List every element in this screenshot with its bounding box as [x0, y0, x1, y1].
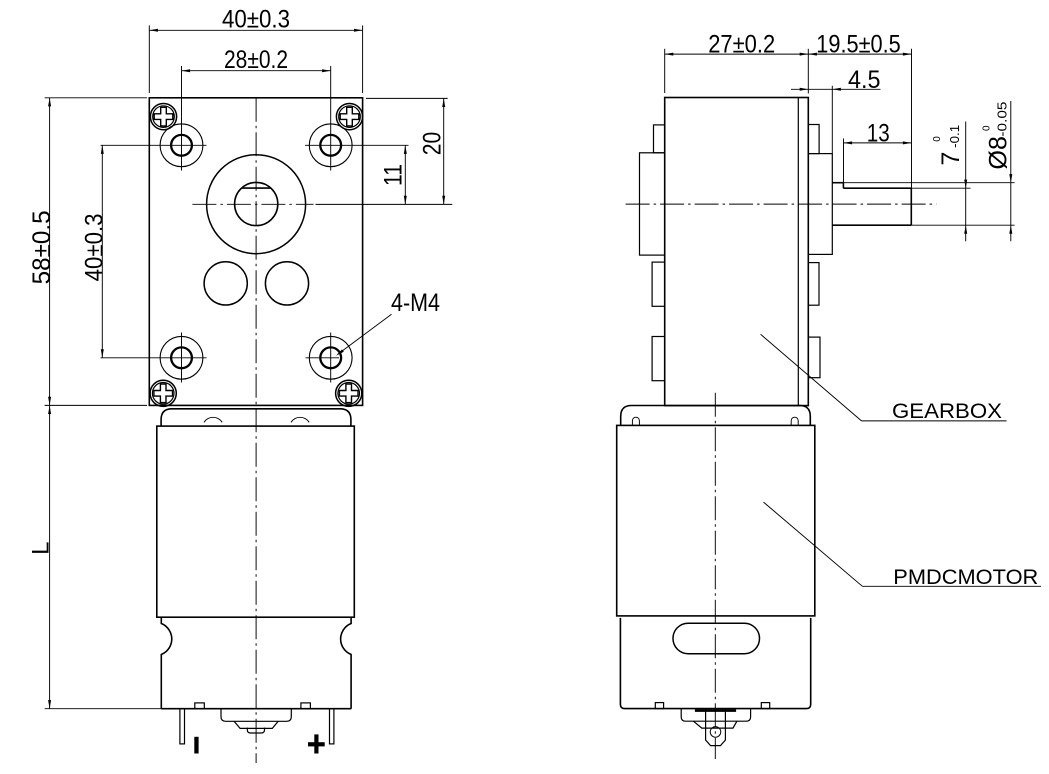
- cap vent arc right: [291, 417, 309, 422]
- front view vertical centerline: [255, 98, 257, 763]
- svg-text:40±0.3: 40±0.3: [80, 213, 108, 281]
- screw top-left: [150, 104, 176, 130]
- rear shaft end pin: [706, 709, 726, 746]
- shaft top extension line: [843, 182, 1014, 184]
- gearbox side outline: [665, 98, 809, 406]
- left bearing boss tab: [640, 153, 665, 255]
- dim L motor length: [27, 405, 161, 708]
- screw bottom-right: [336, 380, 362, 406]
- terminal pin left: [180, 709, 185, 744]
- dim 27+-0.2 gearbox depth: [665, 30, 809, 93]
- svg-text:4-M4: 4-M4: [391, 289, 440, 317]
- rear pin hole circle: [710, 727, 721, 738]
- motor can (side): [620, 618, 810, 709]
- svg-text:PMDCMOTOR: PMDCMOTOR: [893, 565, 1038, 589]
- shaft flat extension line: [911, 187, 970, 189]
- mounting hole bottom-left (M4): [160, 336, 203, 379]
- motor flange cap (side): [621, 406, 811, 426]
- screw top-right: [336, 104, 362, 130]
- output bearing boss (side): [808, 154, 832, 255]
- cap vent hole right (side): [791, 417, 798, 425]
- label 4-M4 with leader: [336, 289, 440, 356]
- svg-text:GEARBOX: GEARBOX: [892, 399, 1002, 423]
- brush housing bump left: [195, 703, 205, 709]
- output shaft boss circle: [207, 155, 306, 254]
- dim 40+-0.3 hole vertical spacing: [80, 145, 108, 357]
- side view vertical centerline: [714, 393, 716, 759]
- svg-text:Ø80-0.05: Ø80-0.05: [982, 102, 1013, 170]
- svg-text:19.5±0.5: 19.5±0.5: [816, 30, 901, 58]
- gear cover circle left: [204, 262, 247, 305]
- right rib step upper: [808, 125, 819, 154]
- terminal pin right: [330, 709, 334, 744]
- side view horizontal centerline: [626, 203, 937, 205]
- shaft bottom extension line: [911, 224, 1014, 226]
- rear shaft nub (front view): [247, 728, 264, 733]
- dim 4.5 boss height: [791, 66, 881, 153]
- plus polarity mark: [308, 734, 325, 753]
- front view shaft horizontal centerline: [192, 203, 313, 205]
- rear housing step (side): [693, 721, 737, 728]
- right screw boss tab mid: [808, 263, 819, 306]
- svg-text:28±0.2: 28±0.2: [224, 46, 288, 74]
- svg-text:11: 11: [380, 164, 408, 186]
- right screw boss tab lower: [808, 337, 820, 378]
- left screw boss tab lower: [652, 337, 665, 381]
- dim 28+-0.2 hole spacing: [182, 46, 331, 74]
- mounting hole top-left (M4): [160, 124, 203, 167]
- output shaft circle (D8): [235, 182, 278, 225]
- svg-text:70-0.1: 70-0.1: [932, 125, 965, 166]
- rear bearing housing (front view): [221, 709, 291, 722]
- svg-text:13: 13: [867, 119, 890, 147]
- screw bottom-left: [150, 380, 176, 406]
- svg-text:4.5: 4.5: [848, 66, 881, 94]
- left rib tab upper: [654, 125, 665, 153]
- dim 58+-0.5 height: [28, 98, 147, 406]
- motor can left side with crimp notch: [161, 617, 171, 709]
- motor body (side): [617, 425, 815, 616]
- cap vent hole left (side): [632, 417, 639, 425]
- svg-text:L: L: [27, 542, 54, 555]
- crosshair hole bottom-right: [306, 333, 340, 383]
- brush bump right (side): [761, 703, 769, 709]
- brush housing bump right: [301, 703, 311, 709]
- dim 19.5+-0.5 shaft length: [808, 30, 911, 188]
- mounting hole bottom-right (M4): [309, 336, 352, 379]
- motor flange cap (front): [161, 409, 351, 426]
- motor can bottom edge: [161, 708, 351, 710]
- dim 20: [316, 98, 453, 204]
- cap vent arc left: [204, 417, 222, 422]
- gearbox front face plate: [149, 98, 362, 406]
- dim 7 across flat: [932, 122, 967, 242]
- crosshair hole bottom-left: [101, 333, 207, 383]
- gearbox side inner edge: [797, 98, 799, 406]
- mounting hole top-right (M4): [309, 124, 352, 167]
- svg-text:27±0.2: 27±0.2: [708, 30, 775, 58]
- dim D8 shaft diameter: [982, 101, 1013, 241]
- svg-text:20: 20: [419, 132, 447, 156]
- svg-text:40±0.3: 40±0.3: [222, 5, 290, 33]
- label GEARBOX with leader: [761, 334, 1007, 423]
- shaft flat chord: [242, 187, 271, 189]
- dim 40+-0.3 width: [149, 5, 362, 93]
- dim 13 flat length: [844, 119, 912, 188]
- crosshair hole top-right: [305, 66, 409, 171]
- motor body (front): [157, 426, 354, 617]
- left screw boss tab mid: [652, 262, 665, 306]
- thick base segment: [695, 709, 736, 712]
- brush bump left (side): [655, 703, 663, 709]
- crosshair hole top-left: [101, 66, 207, 171]
- dim 11: [380, 145, 408, 204]
- output shaft side silhouette: [832, 183, 911, 226]
- svg-text:58±0.5: 58±0.5: [28, 210, 56, 284]
- minus polarity mark: [194, 737, 198, 754]
- rear housing step (front view): [234, 721, 278, 728]
- vent oval on motor can: [673, 623, 760, 654]
- gear cover circle right: [265, 262, 308, 305]
- rear bearing housing (side): [681, 709, 750, 722]
- motor can right side with crimp notch: [341, 617, 351, 709]
- label PMDCMOTOR with leader: [764, 502, 1042, 589]
